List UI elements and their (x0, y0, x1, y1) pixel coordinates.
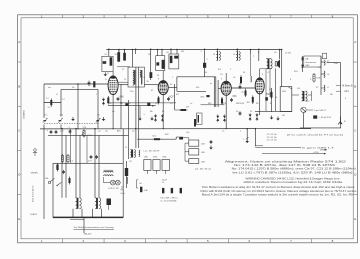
wire mid vert c (128, 100, 130, 159)
ground G2 (138, 117, 142, 121)
wire ift1 lead a (135, 67, 137, 148)
wire loop right vert a (213, 77, 215, 107)
wire 5gen stub (255, 145, 263, 147)
wire right lower drop (255, 128, 257, 146)
rect vibrator unit (280, 87, 292, 112)
resistor R1 in box (110, 57, 113, 65)
wire mixer grid vert (120, 84, 122, 129)
capacitor C13 electrolytic (265, 97, 268, 100)
label 17b (60, 115, 64, 117)
wire stub 140 (139, 106, 141, 117)
wire label stub b (336, 90, 341, 92)
svg-text:5 gen 586 LT: 5 gen 586 LT (302, 148, 336, 150)
label 40uF (319, 117, 332, 119)
wire right heater line (300, 127, 341, 129)
band switch box b (153, 160, 160, 171)
ground G12 det2 (243, 137, 249, 143)
label 17a (44, 115, 48, 117)
label pilot (108, 188, 119, 190)
capacitor C28 box (62, 170, 65, 174)
text align l3 (232, 168, 356, 171)
svg-text:1M: 1M (247, 102, 250, 104)
wire osc upper line (61, 88, 98, 90)
choke L12 (324, 85, 325, 92)
capacitor C22 bar (180, 188, 182, 193)
tube V4 output (255, 78, 264, 94)
label if-switch note (287, 133, 343, 136)
label C19 (144, 190, 149, 192)
label HI drain (342, 84, 353, 87)
svg-text:L5B: L5B (201, 144, 205, 146)
border row ticks and letters (18, 40, 358, 221)
wire grid R drop (150, 48, 152, 80)
svg-text:1n: 1n (222, 131, 224, 133)
wire OT lead down b (269, 69, 271, 97)
label dewald line1 (74, 226, 115, 229)
wire switch stubs (147, 170, 165, 174)
wire extra box drops (71, 129, 88, 164)
wire v4 grid net (271, 88, 273, 112)
coil box C (189, 159, 199, 164)
wire loop right vert b (215, 77, 217, 107)
svg-text:L.S.: L.S. (121, 190, 125, 192)
table trimmer values (267, 134, 277, 141)
IF coil T1a (133, 70, 143, 85)
wire V4 cathode drop (259, 93, 261, 115)
oscillator coil L2a (130, 150, 135, 158)
wire cluster2 drop (158, 50, 163, 56)
antenna terminal (33, 149, 37, 156)
resistor R15 mid (153, 138, 162, 140)
svg-text:10K: 10K (316, 78, 320, 80)
svg-text:17c: 17c (97, 115, 100, 117)
svg-text:A: A (354, 40, 356, 44)
underline dewald (74, 228, 115, 230)
resistor R5 in box3 (170, 56, 173, 63)
text germanium 3 (305, 64, 310, 67)
wire right col horiz (327, 62, 341, 64)
wire can to V2 (144, 84, 158, 86)
wire box drop c (75, 128, 77, 163)
rectifier block (107, 199, 112, 211)
ground G0 below box (104, 72, 108, 76)
svg-text:2 C: 2 C (46, 98, 50, 100)
resistor R13 grid4 (252, 96, 254, 105)
svg-text:2d: 2d (72, 87, 74, 89)
tube V3 detector (221, 81, 231, 95)
diode D2 (301, 65, 304, 67)
wire loop to V3 (218, 87, 221, 89)
rect choke top box (322, 53, 326, 59)
wire mid step (176, 137, 189, 140)
capacitor C27 upper (95, 155, 98, 159)
svg-text:Tom Bulten resistance to allej: Tom Bulten resistance to allej dm 31,54 … (202, 186, 355, 189)
wire coupling cap drop (204, 48, 206, 76)
heater transformer T4 (76, 198, 82, 209)
text align title (225, 160, 347, 163)
label bars line2 (161, 201, 177, 203)
svg-text:3 C: 3 C (48, 107, 52, 109)
text align l2 (234, 164, 336, 167)
label vibrator (282, 91, 287, 93)
wire V1 plate drop (108, 48, 110, 56)
wire V1 top stub (112, 72, 114, 76)
resistor R19 upper (67, 154, 69, 163)
jack J1 (338, 117, 346, 125)
wire det2 drop (246, 128, 248, 143)
coil box B (189, 149, 199, 155)
resistor R22 box (69, 177, 71, 185)
filter choke L13 (302, 91, 307, 101)
wire mid bus (137, 138, 176, 140)
wire V3 to V4 (231, 87, 256, 89)
svg-text:No: 174.0415 (.1297) B 580m (4: No: 174.0415 (.1297) B 580m (4880m), one… (232, 168, 356, 171)
capacitor C20 bar (162, 188, 164, 193)
label dewald line2 (84, 233, 92, 235)
capacitor C23 electrolytic (313, 115, 317, 118)
label V3 (233, 96, 238, 98)
trimmer X4 under V3 (223, 114, 226, 122)
wire top supply bus (106, 49, 281, 51)
svg-text:L4B: L4B (201, 152, 205, 154)
wire speaker field vert (275, 69, 277, 112)
trimmer X0 under V1 (102, 98, 105, 106)
svg-text:1000 in unlooked. Datum innova: 1000 in unlooked. Datum innovation fug 2… (243, 181, 343, 184)
trimmer C15 (50, 130, 53, 134)
ground G11 (209, 146, 213, 150)
resistor R3 grid (150, 72, 153, 78)
svg-text:LC 1/C:18 (M,S)B: LC 1/C:18 (M,S)B (161, 201, 177, 203)
vertical label frame aerial (32, 185, 35, 202)
ground G10 (71, 117, 75, 121)
svg-text:L1a - M1 - M2 3P: L1a - M1 - M2 3P (144, 151, 161, 153)
choke L11 (324, 71, 325, 78)
capacitor C21 bar (171, 188, 173, 193)
label switch title (144, 151, 161, 153)
capacitor C34 small (238, 103, 244, 116)
svg-text:(GRAMO): (GRAMO) (23, 110, 26, 119)
band switch box a (144, 160, 151, 171)
wire antenna line (44, 83, 108, 85)
wire under v3 stub (201, 104, 225, 106)
svg-text:Veld: Veld (121, 193, 125, 195)
svg-text:2M: 2M (181, 51, 184, 53)
wire box right up (122, 129, 124, 164)
svg-text:6 pin 536 LT: 6 pin 536 LT (314, 110, 327, 112)
svg-text:LW + MW + SW LC: LW + MW + SW LC (161, 198, 179, 200)
wire antenna down (43, 84, 45, 118)
wire OT left drop (258, 48, 260, 61)
label box B (201, 152, 205, 154)
svg-text:les LU 3.61 (.797) B 387s (118: les LU 3.61 (.797) B 387s (1185s), fLV; … (233, 171, 353, 174)
wire r9 stub (175, 109, 179, 111)
wire gang2 foot (60, 125, 62, 129)
label V2 (169, 96, 174, 98)
svg-text:1n: 1n (190, 103, 192, 105)
capacitor C9 coupling (201, 95, 210, 99)
transformer T3 core (104, 170, 114, 176)
capacitor C25 det (210, 140, 213, 144)
trimmer X5 under V4 (249, 113, 252, 121)
wire AVC bus (40, 128, 311, 130)
resistor R20 v3v4 (240, 75, 242, 85)
svg-text:osc: osc (132, 131, 135, 133)
svg-text:50 pF: 50 pF (162, 179, 168, 181)
choke L10 (324, 60, 325, 65)
svg-text:AVC: AVC (117, 130, 122, 133)
rect germanium note box (304, 56, 321, 67)
svg-text:+ 40 µF 34.2: + 40 µF 34.2 (319, 117, 332, 119)
svg-text:Rk: Rk (256, 103, 258, 105)
wire box internal a (62, 163, 66, 198)
text germanium 1 (305, 57, 309, 60)
rect small box det (197, 113, 202, 125)
oscillator coil L2b (139, 150, 140, 157)
trimmer X1 under V2 (154, 114, 157, 122)
svg-text:Band A 3m/134 (is a single 7 p: Band A 3m/134 (is a single 7 position ro… (202, 194, 354, 197)
wire rf vert (77, 83, 79, 128)
resistor R23 ant line (93, 81, 95, 87)
svg-text:E: E (18, 217, 20, 221)
wire label stub a (336, 85, 341, 87)
capacitor C11 (167, 97, 170, 101)
resistor R12 cathode3 (221, 97, 223, 105)
capacitor C36 on line (147, 102, 150, 105)
svg-text:OA:: OA: (305, 57, 309, 60)
wire ant switch down (43, 125, 45, 220)
capacitor C2 (123, 53, 126, 61)
resistor R2 screen (117, 52, 120, 62)
svg-text:osc: osc (98, 131, 101, 133)
ground G9 (276, 117, 280, 121)
wire box drop e (94, 128, 96, 163)
label R13 (247, 102, 250, 104)
wire loop right vert c (217, 80, 219, 107)
wire choke link (292, 91, 312, 101)
svg-text:2 C: 2 C (62, 99, 66, 101)
svg-text:+B A: +B A (344, 90, 349, 93)
capacitor C4 in box3 (174, 56, 178, 59)
junction dots top bus (118, 49, 282, 51)
ground G1 (102, 117, 106, 121)
resistor R17 on V3V4 wire (245, 88, 247, 97)
box screen unit2 (156, 56, 165, 71)
label R14 (48, 107, 52, 109)
wire box drop f (98, 135, 100, 163)
wire choke top link (321, 62, 324, 88)
svg-text:R101 with R103 (both 10 volume: R101 with R103 (both 10 volume) on 1/3 R… (201, 190, 358, 193)
svg-text:(L4 - M4 - S4 L2): (L4 - M4 - S4 L2) (195, 169, 211, 171)
resistor R18 upper (61, 154, 63, 163)
label 5 gen (255, 147, 335, 150)
label L8 small (162, 179, 168, 184)
wire OT lead down a (265, 69, 267, 112)
capacitor C31 bar (194, 119, 196, 127)
wire gang3 vert (97, 89, 99, 128)
resistor R21 v4 (271, 91, 273, 100)
label box A (201, 144, 205, 146)
tube V1 converter (108, 76, 118, 95)
output transformer T2 (266, 59, 272, 69)
svg-text:12 GN: 12 GN (285, 53, 291, 55)
box screen unit3 (169, 54, 179, 69)
capacitor C17 (69, 129, 72, 133)
trimmer X6 under V4 (256, 113, 259, 121)
bracket line (137, 180, 139, 188)
wire box internal d (73, 209, 102, 218)
svg-text:6K6: 6K6 (233, 96, 238, 98)
svg-text:RB-242: RB-242 (84, 233, 92, 235)
wire grid loop bottom (177, 90, 206, 92)
svg-text:L3B: L3B (201, 162, 205, 164)
diode D1 (301, 58, 304, 60)
ground G14 (150, 117, 154, 121)
wire loop left vert (174, 84, 176, 110)
misc component value labels (46, 51, 347, 185)
resistor R4 in box2 (162, 60, 165, 69)
wire grid loop left (176, 77, 178, 92)
tube V2 IF amplifier (158, 81, 168, 95)
wire avc return a (107, 102, 176, 104)
svg-text:4 dF: 4 dF (144, 190, 149, 192)
vertical label gramo (23, 110, 26, 119)
junction dots mid (120, 102, 153, 129)
transistor Q1 (301, 107, 307, 112)
wire right col vert (340, 63, 342, 128)
wire V1 cathode drop (112, 94, 114, 128)
capacitor C12 (230, 98, 233, 102)
wire V2 top stub (162, 71, 164, 81)
wire box drop d (79, 135, 81, 163)
label box C (201, 162, 205, 164)
svg-text:BLACK: BLACK (31, 213, 38, 216)
svg-text:Alignment: Notes on clutchi: Alignment: Notes on clutching Marion Rad… (225, 160, 347, 163)
svg-text:6A8: 6A8 (120, 96, 125, 99)
svg-text:B: B (18, 84, 20, 88)
svg-text:C23-2 + 158 : 128m: C23-2 + 158 : 128m (267, 139, 277, 141)
wire box internal c (95, 163, 99, 198)
wire box drop a (61, 128, 63, 163)
capacitor C26 upper (90, 155, 93, 159)
text note l1 (202, 186, 355, 189)
border inner frame (21, 18, 353, 239)
label 23v (262, 152, 326, 155)
text align l4 (233, 171, 353, 174)
tuning gang C14b (58, 118, 63, 123)
switch S2 box (56, 182, 61, 186)
label 6 pin (314, 110, 327, 112)
wire coilB stub (237, 48, 239, 51)
wire lower b bus (255, 110, 292, 112)
capacitor C5 coupling (203, 63, 206, 68)
wire ift1 bottom (118, 81, 128, 83)
speaker LS (275, 59, 280, 68)
wire avc return b (108, 105, 156, 107)
heater transformer T5 (95, 198, 101, 209)
wire vib left drop (281, 50, 283, 87)
capacitor C24 on V3V4 wire (239, 83, 242, 89)
wire cluster1b drop (119, 50, 125, 58)
wire V3 top stub (225, 73, 227, 81)
label V1 (120, 96, 125, 99)
resistor R10 cathode1 (107, 96, 109, 105)
wire box drop b (65, 135, 67, 163)
label 17c (97, 115, 100, 117)
wire V2 to loop (168, 87, 177, 89)
text note l2 (201, 190, 358, 193)
svg-text:8n: 8n (162, 111, 164, 113)
wire field coil vert (126, 161, 128, 188)
label under boxes (195, 169, 211, 171)
wire grid loop top (177, 76, 216, 78)
svg-text:finut: finut (153, 135, 157, 138)
label green (31, 173, 39, 175)
pilot lamp PL2 (115, 180, 120, 185)
capacitor C18 block (179, 137, 183, 140)
wire V1 V2 coupling (118, 84, 128, 86)
svg-text:No: 174.142 B 1874s, dias 147: No: 174.142 B 1874s, dias 147 IF, 548 24… (234, 164, 336, 167)
wire lower left bus (48, 134, 129, 136)
wire coilA stub (217, 48, 219, 51)
svg-text:ant: ant (48, 86, 51, 89)
capacitor C1 in box (103, 61, 107, 64)
wire transistor drop (303, 113, 305, 128)
IF coil T1b (133, 78, 134, 85)
svg-text:De Wald Grammofoon met Omroep: De Wald Grammofoon met Omroep (74, 226, 115, 229)
tuning gang C14a (43, 118, 48, 123)
wire choke col (320, 56, 322, 95)
svg-text:GREEN: GREEN (31, 173, 39, 175)
label R8 (316, 78, 320, 80)
wire gang link dashed (44, 122, 98, 124)
field coil marks (122, 168, 129, 190)
wire osc down (60, 89, 62, 116)
capacitor C37 ant line (88, 81, 91, 86)
wire OT right drop (279, 50, 281, 60)
label bars line1 (161, 198, 179, 200)
trimmer C16 (55, 130, 58, 134)
wire det drop (249, 50, 251, 55)
wire ift1 lead b (138, 67, 140, 148)
label black (31, 213, 38, 216)
wire box internal b (76, 163, 80, 198)
border zone ticks and numbers (41, 15, 334, 244)
wire junction a (135, 48, 137, 54)
svg-text:(If no switch should be PT on: (If no switch should be PT on back) (287, 133, 343, 136)
wire cluster3 drop (170, 48, 177, 54)
capacitor C3 in box2 (156, 62, 159, 65)
coil L2 choke (236, 52, 240, 61)
svg-text:WARNING CHANGED 144 BC LJ1Z, H: WARNING CHANGED 144 BC LJ1Z, Herterfeld … (246, 177, 341, 180)
svg-text:Germanium: Germanium (305, 61, 316, 64)
ground G13 (270, 116, 274, 120)
text germanium 2 (305, 61, 316, 64)
svg-text:pad: pad (60, 131, 63, 133)
wire ift1 drops (132, 50, 134, 68)
capacitor C10 (117, 97, 120, 101)
pilot lamp PL1 (110, 180, 115, 185)
text warn l2 (243, 181, 343, 184)
text warn l1 (246, 177, 341, 180)
junction dots AVC bus (61, 128, 226, 129)
resistor R8 (313, 73, 315, 83)
svg-text:500K: 500K (88, 135, 93, 137)
label switch cols (144, 157, 168, 159)
wire pilot leads (104, 177, 111, 183)
label P1 (88, 135, 93, 137)
capacitor C35 on line (125, 103, 128, 106)
label LS (121, 190, 125, 196)
